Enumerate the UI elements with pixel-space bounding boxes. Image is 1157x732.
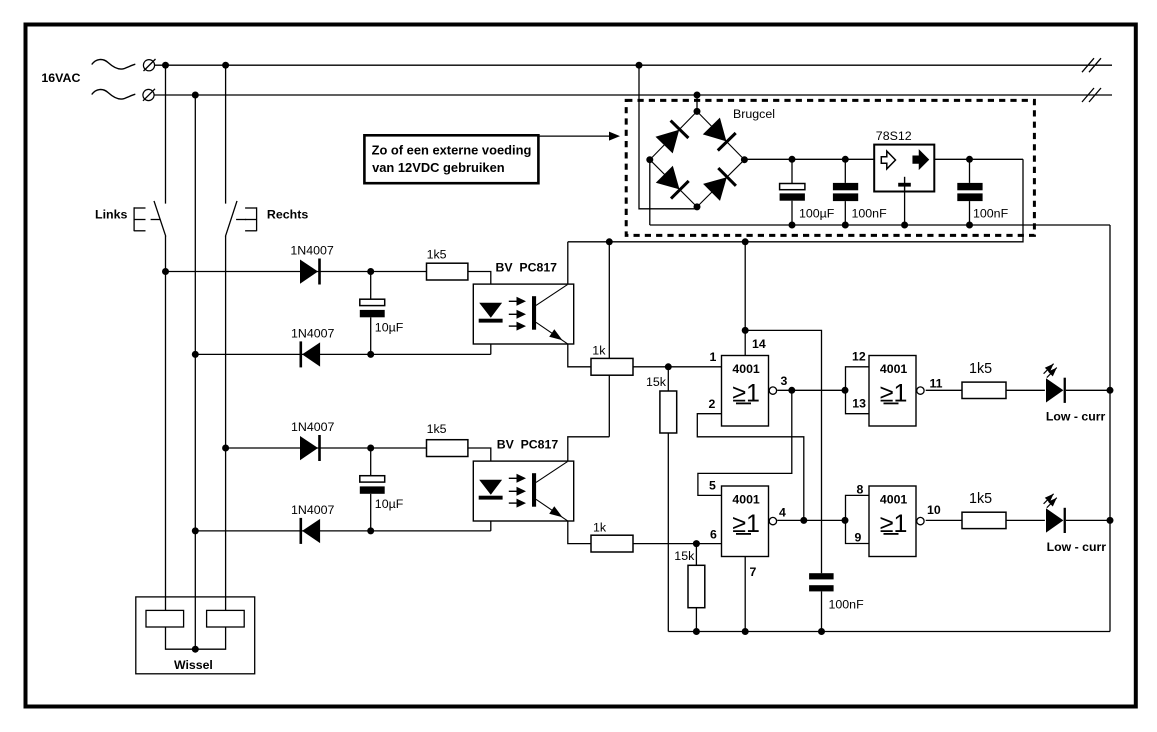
svg-text:Brugcel: Brugcel — [733, 107, 775, 121]
svg-text:1k: 1k — [593, 521, 607, 535]
terminal lower — [143, 89, 155, 101]
svg-text:1k5: 1k5 — [969, 491, 992, 507]
junction C5 top — [966, 156, 973, 163]
bridge diode D7 — [656, 166, 689, 199]
svg-text:Links: Links — [95, 208, 127, 222]
svg-text:1k5: 1k5 — [427, 422, 447, 436]
wire rail1 to bridge bottom node — [639, 65, 697, 209]
note text line1 — [372, 142, 532, 157]
junction gate D input — [842, 517, 849, 524]
svg-text:1N4007: 1N4007 — [291, 503, 335, 517]
wire pin3 to pin5 — [698, 390, 792, 495]
svg-text:Rechts: Rechts — [267, 208, 308, 222]
label Rechts — [267, 208, 308, 222]
junction pin4 node — [800, 517, 807, 524]
label Low - curr LED2 — [1047, 540, 1107, 554]
regulator U5 78S12 — [874, 145, 934, 192]
note box externe voeding — [364, 135, 538, 183]
resistor R6 15k — [688, 544, 705, 632]
label Low - curr LED1 — [1046, 410, 1106, 424]
svg-text:1k: 1k — [592, 344, 606, 358]
label pin 3 — [781, 374, 788, 388]
junction C5 bottom — [966, 222, 973, 229]
label 1k R4 — [593, 521, 607, 535]
wire R3 to pin1 — [633, 366, 722, 368]
label Links — [95, 208, 127, 222]
wire row2 — [195, 353, 491, 355]
capacitor C4 100nF — [833, 159, 858, 225]
node bridge bottom — [694, 203, 701, 210]
wire rail1 down to Rechts switch — [225, 65, 227, 203]
capacitor C1 10uF — [360, 272, 385, 355]
label pin 1 — [710, 350, 717, 364]
label pin 8 — [857, 483, 864, 497]
label 10uF C1 — [375, 320, 404, 334]
svg-text:10µF: 10µF — [375, 497, 404, 511]
junction R6 ground — [693, 628, 700, 635]
node bridge right — [741, 156, 748, 163]
wire pin3 output — [777, 389, 845, 391]
label 1N4007 D2 — [291, 326, 335, 340]
svg-text:1k5: 1k5 — [969, 361, 992, 377]
label pin 2 — [709, 397, 716, 411]
wire row3 — [226, 447, 427, 449]
label pin 13 — [852, 397, 866, 411]
AC source wave lower — [92, 90, 136, 100]
bridge diode D8 — [703, 168, 736, 201]
wire rail1 down to Links switch — [165, 65, 167, 203]
wire bridge plus to regulator — [744, 158, 874, 160]
junction C3 top — [789, 156, 796, 163]
node bridge top — [694, 108, 701, 115]
label pin 7 — [750, 565, 757, 579]
wire rail2 to bridge top node — [696, 95, 698, 111]
svg-text:10: 10 — [927, 503, 941, 517]
junction C3 bottom — [789, 222, 796, 229]
junction row1-Links wire — [162, 268, 169, 275]
diode D2 1N4007 — [300, 341, 321, 367]
wire bridge minus down to ground rail — [649, 160, 651, 225]
resistor R7 1k5 + LED1 low current — [926, 361, 1110, 403]
label pin 10 — [927, 503, 941, 517]
wire U1 collector up — [567, 242, 569, 284]
svg-text:12: 12 — [852, 349, 866, 363]
svg-text:16VAC: 16VAC — [41, 71, 80, 85]
label 100uF C3 — [799, 207, 835, 221]
svg-text:4: 4 — [779, 506, 786, 520]
wire row4 — [195, 530, 491, 532]
wire ground bottom rail — [668, 631, 1110, 633]
wire +12V down to pin14 — [744, 242, 746, 356]
wire regulator output — [934, 158, 1023, 160]
junction row4-middle wire — [192, 527, 199, 534]
svg-text:1N4007: 1N4007 — [291, 326, 335, 340]
svg-text:15k: 15k — [646, 375, 667, 389]
capacitor C6 100nF — [809, 573, 834, 631]
junction LED1 ground — [1107, 387, 1114, 394]
break marks rail2 — [1082, 88, 1101, 102]
gate U3C 4001 — [869, 356, 924, 427]
wire +12V down and left — [568, 159, 1023, 242]
label 100nF C4 — [852, 207, 888, 221]
capacitor C5 100nF — [957, 159, 982, 225]
svg-text:4001: 4001 — [880, 492, 908, 506]
svg-text:5: 5 — [709, 478, 716, 492]
wire R2 to opto U2 LED — [468, 448, 491, 480]
svg-text:8: 8 — [857, 483, 864, 497]
svg-text:1k5: 1k5 — [427, 248, 447, 262]
svg-text:Low - curr: Low - curr — [1046, 410, 1106, 424]
resistor R3 1k — [591, 358, 633, 375]
wire regulator ground pin — [904, 192, 906, 226]
resistor R8 1k5 + LED2 low current — [926, 491, 1110, 533]
label 16VAC — [41, 71, 80, 85]
svg-text:13: 13 — [852, 397, 866, 411]
label 1N4007 D3 — [291, 420, 335, 434]
junction regulator ground — [901, 222, 908, 229]
label 1k R3 — [592, 344, 606, 358]
svg-text:6: 6 — [710, 528, 717, 542]
gate U3B 4001 — [722, 486, 777, 557]
junction pin6-R6 — [693, 540, 700, 547]
junction rail2-middle — [192, 92, 199, 99]
svg-text:14: 14 — [752, 337, 766, 351]
junction rail1-Rechts — [222, 62, 229, 69]
svg-text:van 12VDC gebruiken: van 12VDC gebruiken — [372, 160, 505, 175]
diode D4 1N4007 — [300, 518, 321, 544]
arrow note to supply box — [538, 132, 620, 141]
svg-text:1: 1 — [710, 350, 717, 364]
wire pin2 cross-couple — [697, 414, 804, 521]
bridge edge left-top — [650, 111, 697, 159]
coil left — [146, 610, 184, 627]
wire U2 emitter to R4 — [568, 521, 591, 544]
label pin 4 — [779, 506, 786, 520]
diode D3 1N4007 — [300, 435, 321, 461]
wire U2 collector up — [568, 437, 610, 461]
wire rail1 16VAC top — [155, 64, 1112, 66]
svg-text:Zo of een externe voeding: Zo of een externe voeding — [372, 142, 532, 157]
wire ground right down — [1109, 225, 1111, 632]
junction rail1-Links — [162, 62, 169, 69]
label Brugcel — [733, 107, 775, 121]
wire Links switch down — [165, 236, 167, 611]
svg-text:11: 11 — [930, 377, 943, 391]
dashed box external supply — [626, 100, 1034, 235]
junction rail1-bridge — [636, 62, 643, 69]
svg-text:15k: 15k — [674, 549, 695, 563]
junction pin7 ground — [742, 628, 749, 635]
junction pin3 node — [788, 387, 795, 394]
svg-text:1N4007: 1N4007 — [290, 243, 334, 257]
switch Links blade — [154, 201, 166, 237]
gate U3A 4001 — [722, 356, 777, 427]
label Wissel — [174, 658, 213, 672]
optocoupler U1 BV PC817 — [473, 284, 573, 344]
node bridge left — [646, 156, 653, 163]
label 10uF C2 — [375, 497, 404, 511]
junction C4 bottom — [842, 222, 849, 229]
resistor R2 1k5 — [427, 440, 468, 457]
svg-text:100nF: 100nF — [973, 207, 1009, 221]
svg-text:10µF: 10µF — [375, 320, 404, 334]
wire opto U2 LED cathode down — [490, 500, 492, 531]
resistor R5 15k — [660, 367, 677, 632]
bridge edge top-right — [697, 111, 744, 159]
wire ground rail supply — [650, 224, 1110, 226]
label pin 14 — [752, 337, 766, 351]
resistor R4 1k — [591, 535, 633, 552]
terminal upper — [143, 59, 155, 71]
svg-text:3: 3 — [781, 374, 788, 388]
label 1N4007 D4 — [291, 503, 335, 517]
svg-text:4001: 4001 — [732, 492, 760, 506]
svg-text:Wissel: Wissel — [174, 658, 213, 672]
wire pin14 node to decoupling cap — [745, 330, 821, 573]
svg-text:4001: 4001 — [732, 362, 760, 376]
capacitor C2 10uF — [360, 448, 385, 531]
label BV PC817 U2 — [497, 438, 559, 452]
label pin 6 — [710, 528, 717, 542]
junction pin1-R5 — [665, 363, 672, 370]
label 100nF C5 — [973, 207, 1009, 221]
resistor R1 1k5 — [427, 263, 468, 280]
svg-text:4001: 4001 — [880, 362, 908, 376]
junction +12V gates branch — [742, 238, 749, 245]
label 78S12 — [876, 129, 912, 143]
junction row3-Rechts wire — [222, 445, 229, 452]
junction pin14 node — [742, 327, 749, 334]
junction Wissel middle — [192, 646, 199, 653]
svg-text:1N4007: 1N4007 — [291, 420, 335, 434]
bridge edge bottom-right — [697, 160, 744, 207]
note text line2 — [372, 160, 505, 175]
optocoupler U2 BV PC817 — [473, 461, 573, 521]
wire coil bottoms — [166, 627, 226, 649]
bridge diode D6 — [703, 118, 736, 151]
diode D1 1N4007 — [300, 259, 321, 285]
junction LED2 ground — [1107, 517, 1114, 524]
wire R1 to opto U1 LED — [468, 272, 491, 303]
switch Links actuator bracket — [134, 207, 161, 231]
junction rail2-bridge — [694, 92, 701, 99]
AC source wave upper — [92, 60, 136, 70]
svg-text:9: 9 — [855, 531, 862, 545]
label pin 9 — [855, 531, 862, 545]
gate U3D 4001 — [869, 486, 924, 557]
junction C6 ground — [818, 628, 825, 635]
label 15k R6 — [674, 549, 695, 563]
switch Rechts blade — [225, 201, 237, 237]
bridge diode D5 — [656, 121, 689, 154]
label 15k R5 — [646, 375, 667, 389]
svg-text:Low - curr: Low - curr — [1047, 540, 1107, 554]
label 1k5 R2 — [427, 422, 447, 436]
label 1k5 R1 — [427, 248, 447, 262]
wire U1 emitter to R3 — [568, 344, 591, 367]
svg-text:2: 2 — [709, 397, 716, 411]
wire opto U1 LED cathode down — [490, 323, 492, 355]
input bracket U3C — [846, 367, 870, 414]
bridge edge left-bottom — [650, 160, 697, 207]
svg-text:100µF: 100µF — [799, 207, 835, 221]
wire +12V to U2 collector column — [608, 242, 610, 437]
svg-text:BV PC817: BV PC817 — [497, 438, 559, 452]
Wissel box — [136, 597, 255, 674]
junction row2-middle wire — [192, 351, 199, 358]
label pin 11 — [930, 377, 943, 391]
label 1N4007 D1 — [290, 243, 334, 257]
label pin 12 — [852, 349, 866, 363]
wire pin4 output — [777, 519, 845, 521]
svg-text:100nF: 100nF — [829, 598, 865, 612]
junction +12V opto2 branch — [606, 238, 613, 245]
wire pin7 ground — [744, 557, 746, 632]
junction gate B input — [842, 387, 849, 394]
wire row1 — [166, 271, 427, 273]
junction row1-C1 — [367, 268, 374, 275]
wire rail2 middle down — [194, 95, 196, 649]
input bracket U3D — [846, 495, 870, 543]
wire rail2 16VAC bottom — [154, 94, 1112, 96]
coil right — [207, 610, 245, 627]
capacitor C3 100uF — [780, 159, 805, 225]
wire Rechts switch down — [225, 236, 227, 611]
junction row3-C2 — [367, 445, 374, 452]
wire R4 to pin6 — [633, 543, 722, 545]
junction C4 top — [842, 156, 849, 163]
junction row2-C1 — [367, 351, 374, 358]
label 100nF C6 — [829, 598, 865, 612]
junction row4-C2 — [367, 527, 374, 534]
svg-text:7: 7 — [750, 565, 757, 579]
label BV PC817 U1 — [496, 261, 558, 275]
svg-text:78S12: 78S12 — [876, 129, 912, 143]
svg-text:BV PC817: BV PC817 — [496, 261, 558, 275]
break marks rail1 — [1082, 58, 1101, 72]
label pin 5 — [709, 478, 716, 492]
svg-text:100nF: 100nF — [852, 207, 888, 221]
switch Rechts actuator bracket — [236, 207, 257, 231]
